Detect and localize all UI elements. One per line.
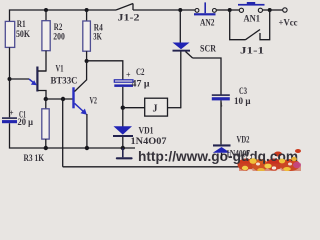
wire base rail <box>46 98 73 100</box>
terminal +Vcc <box>279 8 298 29</box>
svg-text:VD1: VD1 <box>139 126 154 136</box>
svg-text:3K: 3K <box>93 32 102 42</box>
wire node to +Vcc terminal <box>270 9 283 11</box>
wire C2 bottom to VD1 node <box>122 87 124 108</box>
node junction top of J1-1 left <box>228 8 232 12</box>
wire left rail down to C1 <box>9 79 11 117</box>
wire AN1 to node <box>263 9 270 11</box>
pushbutton AN2 <box>194 2 216 27</box>
svg-text:J: J <box>153 104 158 115</box>
transistor V2 <box>72 80 97 115</box>
transistor V1 <box>10 64 78 100</box>
ground symbol below VD1 <box>122 148 124 157</box>
capacitor C2 <box>114 67 149 89</box>
wire SCR cathode down to J <box>180 52 182 109</box>
node junction C2/VD1/J <box>121 106 125 110</box>
wire V2 collector up to node <box>86 61 88 80</box>
node ground rail R3 <box>44 146 48 150</box>
svg-text:J1-2: J1-2 <box>118 13 141 23</box>
node emitter junction <box>8 77 12 81</box>
svg-text:+Vcc: +Vcc <box>279 19 298 29</box>
svg-text:R1: R1 <box>17 19 26 29</box>
relay contact J1-2 <box>116 4 140 23</box>
svg-text:VD2: VD2 <box>237 134 250 144</box>
svg-text:+: + <box>9 109 14 118</box>
node junction R2 top <box>44 8 48 12</box>
svg-text:V2: V2 <box>90 96 98 106</box>
svg-text:50K: 50K <box>16 29 30 39</box>
wire from base rail down to bottom rail <box>62 99 64 167</box>
node ground rail VD1 <box>121 146 125 150</box>
wire C3 bottom to VD2 <box>220 100 222 144</box>
resistor R2 <box>42 10 65 51</box>
wire C2 branch horizontal <box>87 61 123 80</box>
svg-text:C3: C3 <box>239 86 247 96</box>
node ground rail V2 emitter <box>85 146 89 150</box>
pushbutton AN1 <box>238 2 265 24</box>
svg-text:AN2: AN2 <box>200 18 215 28</box>
capacitor C3 <box>212 86 251 109</box>
resistor R1 <box>5 19 30 47</box>
node junction SCR anode top <box>178 8 182 12</box>
svg-text:C2: C2 <box>136 67 145 77</box>
diode VD2 1N4007 <box>213 134 251 160</box>
relay coil J <box>123 98 181 116</box>
logo blob group <box>238 149 302 171</box>
wire R1 bottom to emitter node <box>9 47 11 79</box>
resistor R3 <box>24 99 50 163</box>
node junction top of J1-1 right <box>268 8 272 12</box>
svg-text:R2: R2 <box>54 22 63 32</box>
svg-text:20 μ: 20 μ <box>18 117 34 127</box>
svg-text:V1: V1 <box>56 64 64 74</box>
wire R2 bottom to V1 base2 <box>38 51 46 71</box>
svg-text:1N4007: 1N4007 <box>226 149 250 159</box>
wire V2 emitter down to ground rail <box>86 114 88 148</box>
svg-text:+: + <box>126 71 131 80</box>
resistor R4 <box>83 10 103 51</box>
svg-text:1N4O07: 1N4O07 <box>131 136 168 146</box>
node base rail left junction <box>44 97 48 101</box>
node base rail junction x63 <box>61 97 65 101</box>
node junction R4 top <box>85 8 89 12</box>
wire bottom rail <box>63 166 272 168</box>
capacitor C1 <box>2 109 33 128</box>
thyristor SCR <box>173 43 217 59</box>
svg-text:BT33C: BT33C <box>51 76 78 86</box>
wire AN2 to node <box>216 9 229 11</box>
wire top rail middle segment <box>133 9 195 11</box>
svg-text:AN1: AN1 <box>244 14 261 24</box>
wire SCR gate to C3 <box>193 58 221 95</box>
relay contact J1-1 <box>230 10 270 56</box>
wire R4 bottom to collector node <box>86 51 88 61</box>
svg-text:SCR: SCR <box>200 44 216 54</box>
svg-text:200: 200 <box>53 32 65 42</box>
logo speckles <box>239 155 301 172</box>
node collector junction <box>85 59 89 63</box>
wire top rail left segment <box>10 10 117 22</box>
wire C1 bottom to ground rail corner <box>10 123 136 148</box>
svg-text:R3 1K: R3 1K <box>24 153 45 163</box>
wire node to VD1 <box>122 108 124 127</box>
svg-text:47 μ: 47 μ <box>132 79 150 89</box>
diode VD1 1N4007 <box>113 126 167 149</box>
wire node to AN1 <box>230 9 240 11</box>
svg-text:10 μ: 10 μ <box>234 96 251 106</box>
wire node down to SCR <box>179 10 181 43</box>
svg-text:J1-1: J1-1 <box>240 46 265 56</box>
